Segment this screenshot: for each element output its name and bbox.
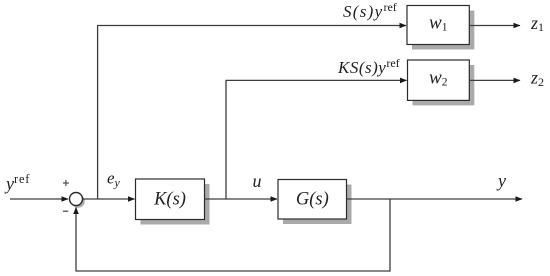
wire: w1 output to z1 bbox=[469, 25, 520, 27]
block K(s) shadow bbox=[141, 184, 210, 225]
svg-text:ey: ey bbox=[107, 169, 121, 190]
wire: feedback path bbox=[76, 199, 390, 271]
wire: summing junction to K(s) bbox=[83, 198, 135, 200]
node: summing junction shadow bbox=[71, 194, 85, 208]
svg-text:yref: yref bbox=[4, 172, 30, 194]
svg-text:K(s): K(s) bbox=[153, 190, 186, 210]
block G(s) bbox=[278, 180, 347, 220]
svg-text:G(s): G(s) bbox=[296, 190, 329, 210]
label: plus sign bbox=[63, 180, 69, 186]
svg-text:u: u bbox=[253, 171, 262, 191]
svg-text:y: y bbox=[496, 171, 506, 191]
block w2 bbox=[408, 60, 470, 100]
wire: input y_ref into summing junction bbox=[10, 198, 68, 200]
wire: G(s) output to y bbox=[347, 198, 523, 200]
block w1 bbox=[407, 6, 469, 45]
svg-text:S(s)yref: S(s)yref bbox=[343, 0, 397, 21]
wire: w2 output to z2 bbox=[469, 79, 520, 81]
svg-text:z2: z2 bbox=[530, 68, 544, 89]
block G(s) shadow bbox=[283, 185, 352, 225]
node: summing junction bbox=[70, 193, 83, 206]
block w1 shadow bbox=[412, 11, 474, 50]
block w2 shadow bbox=[413, 65, 475, 105]
svg-text:KS(s)yref: KS(s)yref bbox=[337, 56, 400, 77]
svg-text:z1: z1 bbox=[530, 13, 544, 34]
wire: branch up to w1 bbox=[98, 26, 406, 200]
label: minus sign bbox=[63, 210, 68, 212]
wire: branch up to w2 bbox=[226, 80, 407, 199]
wire: K(s) to G(s) bbox=[205, 198, 278, 200]
block K(s) bbox=[136, 179, 205, 220]
